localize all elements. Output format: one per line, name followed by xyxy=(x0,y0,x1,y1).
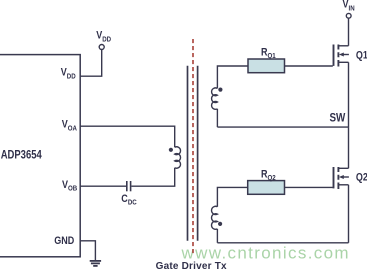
svg-text:SW: SW xyxy=(330,112,346,125)
transformer secondary winding 2 xyxy=(212,206,218,229)
wire VOA to transformer primary top xyxy=(80,126,175,147)
terminal VDD circle xyxy=(99,45,104,50)
pin label VOA xyxy=(62,119,77,133)
IC label ADP3654 xyxy=(1,149,42,162)
wire Q2 source to bottom rail xyxy=(348,185,350,243)
label Q2 xyxy=(356,172,367,184)
resistor label RQ2 xyxy=(261,169,276,183)
svg-text:RQ1: RQ1 xyxy=(261,47,276,61)
wire secondary2 bottom xyxy=(216,229,218,243)
isolation barrier red dashed line xyxy=(192,39,194,256)
wire Q1 source to SW node xyxy=(348,62,350,127)
resistor label RQ1 xyxy=(261,47,276,61)
resistor RQ1 xyxy=(248,59,285,73)
svg-text:VIN: VIN xyxy=(343,0,355,13)
phase dot secondary 1 xyxy=(218,88,222,92)
label Q1 xyxy=(356,50,367,62)
svg-text:VDD: VDD xyxy=(61,67,76,81)
wire SW to Q2 drain xyxy=(348,127,350,168)
svg-text:Q1: Q1 xyxy=(356,50,367,62)
wire secondary2 top to RQ2 xyxy=(217,187,247,206)
IC body ADP3654 xyxy=(0,55,80,257)
transformer primary winding xyxy=(175,147,181,168)
wire Q1 drain to VIN xyxy=(348,18,350,46)
wire SW node rail xyxy=(217,126,348,128)
svg-text:CDC: CDC xyxy=(121,193,136,207)
terminal VIN circle xyxy=(346,13,351,18)
wire RQ2 to Q2 gate xyxy=(285,186,333,188)
transformer core bar right xyxy=(197,66,199,241)
transformer core bar left xyxy=(187,66,189,241)
supply label VIN xyxy=(343,0,355,13)
svg-text:www.cntronics.com: www.cntronics.com xyxy=(181,244,350,263)
wire secondary1 top to RQ1 xyxy=(217,66,248,88)
pin label VDD xyxy=(61,67,76,81)
wire VOB to capacitor xyxy=(80,185,126,187)
svg-text:RQ2: RQ2 xyxy=(261,169,276,183)
wire GND pin xyxy=(80,241,95,260)
phase dot primary xyxy=(169,148,173,152)
svg-text:GND: GND xyxy=(54,235,74,247)
resistor RQ2 xyxy=(248,181,285,195)
svg-text:Gate Driver Tx: Gate Driver Tx xyxy=(156,261,227,270)
svg-text:Q2: Q2 xyxy=(356,172,367,184)
wire RQ1 to Q1 gate xyxy=(285,65,333,67)
MOSFET Q2 xyxy=(334,167,349,189)
svg-text:VOA: VOA xyxy=(62,119,77,133)
pin label GND xyxy=(54,235,74,247)
MOSFET Q1 xyxy=(334,45,349,67)
svg-text:ADP3654: ADP3654 xyxy=(1,149,42,162)
svg-text:VOB: VOB xyxy=(62,179,77,193)
node label SW xyxy=(330,112,346,125)
transformer secondary winding 1 xyxy=(212,88,218,109)
capacitor CDC xyxy=(127,181,131,191)
supply label VDD xyxy=(96,30,111,44)
pin label VOB xyxy=(62,179,77,193)
svg-text:VDD: VDD xyxy=(96,30,111,44)
capacitor label CDC xyxy=(121,193,136,207)
wire capacitor to transformer primary bottom xyxy=(131,168,174,187)
wire secondary1 bottom to SW xyxy=(216,109,218,127)
phase dot secondary 2 xyxy=(218,222,222,226)
wire bottom return rail xyxy=(217,242,348,244)
ground symbol xyxy=(90,261,101,266)
wire VDD pin to supply xyxy=(80,50,102,77)
